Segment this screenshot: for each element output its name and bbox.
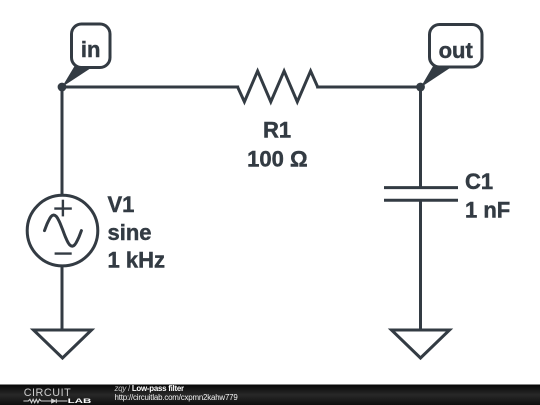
V1 minus sign <box>55 252 72 254</box>
ground symbol left <box>34 330 92 358</box>
svg-text:1 kHz: 1 kHz <box>108 248 165 273</box>
svg-text:out: out <box>439 38 474 63</box>
wire: top horizontal, node in to R1 left lead <box>62 86 238 89</box>
capacitor C1 top plate <box>384 186 458 189</box>
CircuitLab footer bar <box>0 385 540 405</box>
node junction dot out <box>416 83 425 92</box>
wire: top horizontal, R1 right lead to node out <box>318 86 421 89</box>
node label in: tail <box>62 65 93 88</box>
wire: left vertical, V1 bottom to ground <box>61 266 64 330</box>
node label in: box <box>72 24 111 68</box>
svg-text:100 Ω: 100 Ω <box>247 147 307 172</box>
CircuitLab logo schematic line with resistor and diode <box>23 399 67 403</box>
svg-text:http://circuitlab.com/cxpmn2ka: http://circuitlab.com/cxpmn2kahw779 <box>115 393 239 402</box>
svg-text:sine: sine <box>108 220 152 245</box>
node label out: tail <box>421 65 452 88</box>
ground symbol right <box>392 330 450 358</box>
svg-text:zqy / Low-pass filter: zqy / Low-pass filter <box>114 384 184 393</box>
svg-text:V1: V1 <box>108 192 135 217</box>
svg-text:C1: C1 <box>465 169 493 194</box>
V1 sine wave <box>45 215 82 246</box>
wire: right vertical, C1 bottom plate to ground <box>419 200 422 330</box>
V1 plus sign <box>54 200 72 217</box>
resistor R1 <box>238 71 318 102</box>
svg-text:1 nF: 1 nF <box>465 198 510 223</box>
svg-text:in: in <box>81 37 101 62</box>
capacitor C1 bottom plate <box>384 199 458 202</box>
svg-text:R1: R1 <box>263 118 291 143</box>
wire: right vertical, node out to C1 top plate <box>419 87 422 188</box>
svg-text:CIRCUIT: CIRCUIT <box>24 387 71 399</box>
wire: left vertical, node in to V1 top <box>61 87 64 195</box>
svg-text:LAB: LAB <box>68 398 92 405</box>
node junction dot in <box>58 83 67 92</box>
voltage source V1 circle <box>27 195 98 266</box>
node label out: box <box>430 25 483 68</box>
